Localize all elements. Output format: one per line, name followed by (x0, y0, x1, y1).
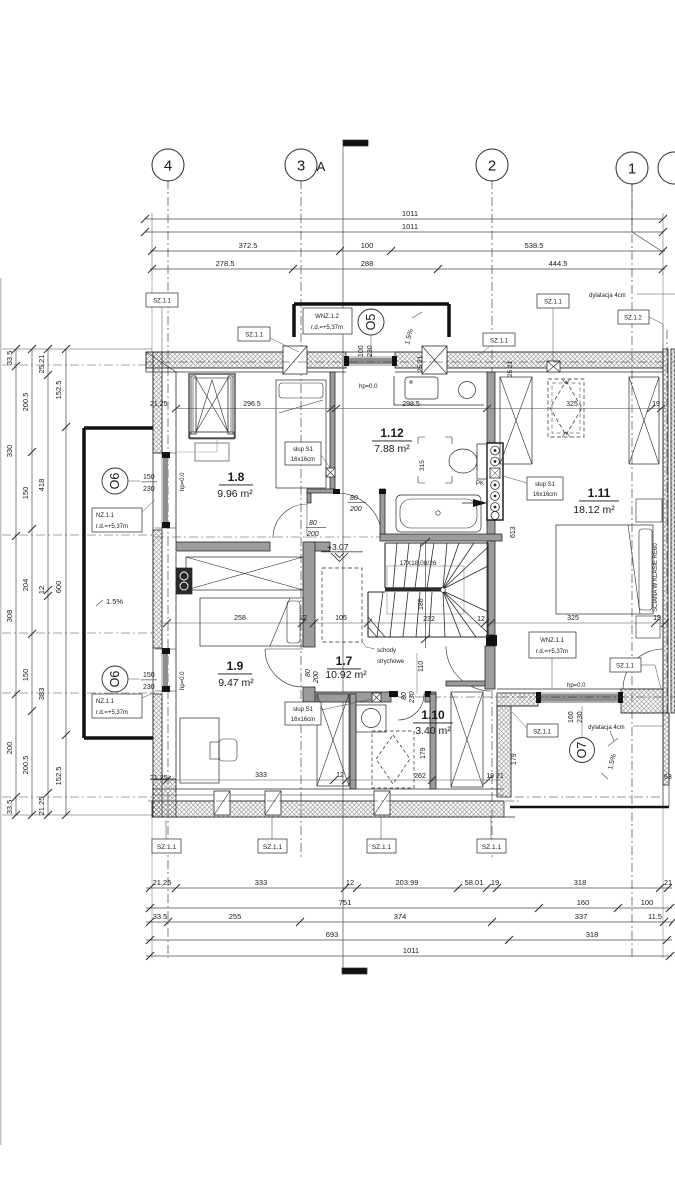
svg-text:230: 230 (577, 711, 584, 723)
boxed label SZ.1.1 upper 2 (238, 327, 299, 352)
WC east wall (430, 694, 436, 789)
svg-text:NZ.1.1: NZ.1.1 (96, 699, 115, 705)
svg-text:schody: schody (377, 648, 396, 654)
svg-text:1.7: 1.7 (336, 654, 353, 668)
ticks row1 (146, 884, 675, 960)
svg-text:200: 200 (306, 531, 319, 538)
washer square (405, 377, 438, 399)
svg-text:O7: O7 (575, 742, 589, 759)
interior dim line top y408 (172, 405, 666, 412)
svg-text:r.d.=+5,37m: r.d.=+5,37m (96, 710, 128, 716)
grid axis right partial circle (658, 152, 675, 716)
svg-text:63: 63 (664, 774, 672, 781)
svg-text:600: 600 (54, 581, 63, 594)
svg-text:337: 337 (575, 912, 588, 921)
wall 1.8/1.12 vertical (330, 372, 335, 489)
left wall window 1 (155, 452, 176, 528)
svg-text:200: 200 (5, 742, 14, 755)
svg-text:230: 230 (143, 684, 155, 691)
svg-text:33.5: 33.5 (153, 912, 168, 921)
svg-text:325: 325 (567, 615, 579, 622)
svg-text:2: 2 (488, 158, 496, 175)
svg-text:16x16cm: 16x16cm (291, 717, 315, 723)
room label 1.9 (218, 659, 254, 689)
grid axis 1 (616, 152, 648, 958)
ticks col1 (12, 345, 70, 819)
FIXTURES (356, 376, 487, 788)
svg-text:203.99: 203.99 (396, 878, 419, 887)
svg-text:SZ.1.1: SZ.1.1 (482, 844, 502, 851)
svg-text:16x16cm: 16x16cm (533, 492, 557, 498)
svg-text:3: 3 (297, 158, 305, 175)
stair opening gray rect (387, 566, 464, 614)
WC door arc (398, 694, 424, 720)
bathroom west wall (380, 489, 385, 539)
room label 1.7 (325, 654, 367, 681)
column slup S1 at WC wall (372, 693, 381, 702)
room label 1.12 (372, 426, 412, 455)
svg-text:150: 150 (143, 672, 155, 679)
svg-text:255: 255 (229, 912, 242, 921)
svg-text:1: 1 (628, 161, 636, 178)
horizontal extension dash-dot lines (2, 365, 497, 797)
center circle (441, 588, 446, 593)
svg-text:r.d.=+5,37m: r.d.=+5,37m (536, 649, 568, 655)
schody strychowe (362, 641, 405, 665)
TOPDIM (141, 183, 667, 275)
svg-text:21,25: 21,25 (150, 775, 168, 782)
svg-text:318: 318 (586, 930, 599, 939)
svg-text:330: 330 (5, 445, 14, 458)
treads upper flight parallel (393, 543, 447, 588)
boxed label SZ.1.2 (618, 310, 663, 349)
treads upper fan (443, 543, 488, 589)
svg-text:418: 418 (37, 479, 46, 492)
STAIRS (322, 538, 488, 648)
dim line row4 (146, 939, 672, 941)
svg-text:NZ.1.1: NZ.1.1 (96, 513, 115, 519)
tick marks (141, 215, 667, 273)
boxed label WNZ.1.2 + leader (303, 308, 352, 334)
boxed label NZ.1.1 second (92, 692, 155, 718)
svg-text:100: 100 (641, 898, 654, 907)
slope 1.5% top balcony (404, 312, 422, 346)
stairs east wall (487, 541, 495, 635)
wardrobe right of WC (451, 692, 483, 787)
svg-text:19: 19 (653, 615, 661, 622)
dim line row5 (146, 955, 672, 957)
svg-text:374: 374 (394, 912, 407, 921)
treads lower fan (443, 591, 488, 637)
svg-text:150: 150 (21, 487, 30, 500)
svg-text:80: 80 (309, 520, 317, 527)
wall 1.8/1.9 (176, 542, 330, 551)
wardrobe west room 1.11 (500, 377, 532, 464)
svg-text:SZ.1.2: SZ.1.2 (624, 316, 642, 322)
room label 1.11 (573, 486, 619, 516)
svg-text:383: 383 (37, 688, 46, 701)
boxed label WNZ.1.1 + leader (529, 632, 576, 689)
svg-text:179: 179 (420, 747, 427, 759)
grid labels (164, 158, 636, 178)
room label 1.8 (217, 470, 253, 500)
svg-text:4: 4 (164, 158, 172, 175)
80/200 fraction door 1.8 (306, 520, 326, 538)
boxed label slup S1 top (285, 442, 330, 468)
terrace bottom right (510, 713, 669, 807)
svg-text:258: 258 (234, 615, 246, 622)
svg-text:dylatacja 4cm: dylatacja 4cm (588, 725, 625, 731)
25/21 rotated pair top wall A (417, 355, 424, 372)
dim line 1011 upper (145, 218, 663, 220)
attic ladder hatch dashed (322, 568, 362, 642)
wall step corridor top (307, 489, 335, 493)
svg-text:1.10: 1.10 (421, 708, 445, 722)
walk line (421, 538, 430, 648)
80/230 rotated WC door (401, 691, 416, 704)
grid axis 3 (285, 149, 317, 858)
svg-text:17X18,08/26: 17X18,08/26 (400, 560, 437, 567)
PK shaft (487, 443, 503, 520)
nightstand A room 1.11 (636, 499, 662, 522)
svg-text:19: 19 (491, 878, 499, 887)
svg-text:204: 204 (21, 579, 30, 592)
svg-text:751: 751 (339, 898, 352, 907)
boxed label SZ.1.1 upper right (537, 294, 569, 361)
svg-text:SZ.1.1: SZ.1.1 (245, 333, 263, 339)
top wall hatched segments (146, 352, 663, 372)
svg-text:SZ.1.1: SZ.1.1 (490, 339, 508, 345)
svg-text:80: 80 (401, 692, 408, 700)
svg-text:SZ.1.1: SZ.1.1 (533, 730, 551, 736)
110 rotated corridor (417, 653, 425, 694)
left wall hatched segments (153, 352, 176, 817)
dashed roof window room 1.11 (548, 379, 584, 437)
dim line row1 (146, 887, 672, 889)
level +3.07 (321, 542, 363, 562)
south wing wall (under 1.11) (497, 689, 668, 713)
bottom wall (152, 789, 515, 817)
svg-text:100: 100 (361, 241, 374, 250)
svg-text:1.9: 1.9 (227, 659, 244, 673)
svg-text:SCIANA W KLASIE RE60: SCIANA W KLASIE RE60 (653, 543, 659, 612)
top balcony outline (294, 304, 449, 337)
svg-text:693: 693 (326, 930, 339, 939)
svg-text:152.5: 152.5 (54, 767, 63, 786)
svg-text:333: 333 (255, 878, 268, 887)
svg-text:318: 318 (574, 878, 587, 887)
svg-text:12: 12 (299, 615, 307, 622)
dim line row3 (146, 921, 672, 923)
dim texts (216, 209, 568, 268)
toilet (449, 444, 487, 479)
right dylatacja double wall (663, 349, 675, 713)
svg-text:315: 315 (419, 460, 426, 471)
column slup S1 in wall (top) (326, 468, 335, 477)
80/200 fraction door 1.12 (348, 495, 366, 513)
1.11 west wall below shaft (487, 520, 495, 534)
svg-text:SZ.1.1: SZ.1.1 (157, 844, 177, 851)
svg-text:150: 150 (143, 474, 155, 481)
door 1.11 arc (623, 649, 663, 689)
svg-text:160: 160 (568, 711, 575, 723)
bottom-left building corner (153, 779, 176, 817)
svg-text:1011: 1011 (402, 209, 418, 218)
lintel box top wall A (283, 346, 307, 374)
top-left wall corner mitre (146, 352, 176, 372)
svg-text:O5: O5 (364, 314, 378, 331)
svg-text:12: 12 (346, 878, 354, 887)
svg-text:33.5: 33.5 (5, 800, 14, 815)
svg-text:25 21: 25 21 (507, 360, 514, 377)
svg-text:SZ.1.1: SZ.1.1 (616, 664, 634, 670)
svg-text:308: 308 (5, 610, 14, 623)
svg-text:1011: 1011 (403, 946, 419, 955)
svg-text:WNZ.1.2: WNZ.1.2 (315, 314, 339, 320)
svg-text:152.5: 152.5 (54, 381, 63, 400)
svg-text:dylatacja 4cm: dylatacja 4cm (589, 293, 626, 299)
svg-text:strychowe: strychowe (377, 659, 405, 665)
south wing window (536, 692, 623, 703)
svg-text:160: 160 (577, 898, 590, 907)
svg-text:200.5: 200.5 (21, 756, 30, 775)
svg-text:25 21: 25 21 (417, 355, 424, 372)
balcony door window top (344, 356, 397, 366)
svg-text:200: 200 (313, 671, 320, 684)
niche wall above WC (446, 681, 494, 686)
dim line 372.5/100/538.5 (150, 250, 665, 252)
desk room 1.9 (180, 718, 237, 783)
svg-text:3.40 m²: 3.40 m² (415, 725, 451, 737)
svg-text:230: 230 (367, 345, 374, 357)
bathtub (396, 495, 481, 532)
svg-text:18.12 m²: 18.12 m² (573, 504, 615, 516)
wardrobe room 1.9 (186, 557, 303, 590)
svg-text:hp=0.0: hp=0.0 (180, 671, 186, 690)
svg-text:1011: 1011 (402, 222, 418, 231)
WC basin (356, 705, 386, 732)
wall 1.9 east (303, 542, 315, 647)
FURNITURE (176, 374, 662, 787)
svg-text:7.88 m²: 7.88 m² (374, 443, 410, 455)
bed room 1.11 (556, 525, 653, 614)
wardrobe corridor (left of WC) (317, 694, 349, 786)
leader from axis1 (632, 183, 663, 252)
vertical chain lines (15, 349, 17, 815)
bathroom/stair separating wall (380, 534, 502, 541)
svg-text:372.5: 372.5 (239, 241, 258, 250)
left balcony outline (84, 428, 153, 738)
boxed label SZ.1.1 terrace (512, 712, 558, 737)
svg-text:200.5: 200.5 (21, 393, 30, 412)
150/230 fraction first (141, 474, 157, 493)
section cut line (342, 140, 368, 974)
svg-text:słup S1: słup S1 (293, 707, 314, 713)
east wall above south wing (485, 646, 495, 689)
svg-text:SZ.1.1: SZ.1.1 (544, 300, 562, 306)
roof window room 1.8 (176, 374, 235, 461)
svg-text:444.5: 444.5 (549, 259, 568, 268)
top/bottom connector (2, 348, 152, 350)
svg-text:186: 186 (418, 598, 425, 610)
boxed label SZ.1.1 right mid (610, 658, 661, 689)
circled O6 first (102, 468, 140, 494)
svg-text:21: 21 (664, 878, 672, 887)
slope 1.5% left balcony (96, 597, 123, 606)
svg-text:11.5: 11.5 (648, 912, 662, 921)
160/230 rotated fraction terrace (568, 711, 584, 723)
svg-text:21,25: 21,25 (153, 878, 172, 887)
rotated dim texts (5, 351, 63, 816)
svg-text:12: 12 (37, 586, 46, 594)
80/200 rotated door 1.9 (305, 669, 320, 684)
svg-text:179: 179 (511, 753, 518, 765)
svg-text:hp=0.0: hp=0.0 (180, 472, 186, 491)
svg-text:12: 12 (336, 772, 344, 779)
circled O7 (570, 706, 595, 763)
svg-text:9.96 m²: 9.96 m² (217, 488, 253, 500)
svg-text:hp=0.0: hp=0.0 (567, 683, 586, 689)
svg-text:613: 613 (510, 526, 517, 538)
svg-text:230: 230 (409, 691, 416, 704)
wall stub below 1.9 door (303, 687, 315, 702)
1.11 west wall upper (487, 372, 495, 443)
bottom wall axis dash-dot (148, 800, 520, 802)
slope 1.5% terrace (601, 731, 618, 779)
door 1.8 arc (273, 504, 307, 538)
svg-text:r.d.=+5,37m: r.d.=+5,37m (311, 325, 343, 331)
room label 1.10 (413, 708, 453, 737)
bed room 1.8 (276, 380, 326, 488)
grid axis 4 (152, 149, 184, 958)
svg-text:25.21: 25.21 (37, 355, 46, 374)
top wall axis dash-dot (145, 361, 675, 363)
svg-text:O6: O6 (108, 671, 122, 688)
svg-text:262: 262 (414, 773, 426, 780)
round basin (459, 382, 476, 399)
svg-text:16x16cm: 16x16cm (291, 457, 315, 463)
svg-text:słup S1: słup S1 (293, 447, 314, 453)
svg-text:+3.07: +3.07 (327, 542, 349, 552)
svg-text:33.5: 33.5 (5, 351, 14, 366)
svg-text:105: 105 (335, 615, 347, 622)
svg-text:hp=0.0: hp=0.0 (359, 384, 378, 390)
boxed label slup S1 mid (503, 476, 563, 500)
svg-text:A: A (317, 159, 326, 174)
grid axis 2 (476, 149, 508, 858)
treads lower flight parallel (377, 592, 432, 637)
extension line left edge (151, 275, 153, 352)
south wing axis dash-dot (330, 696, 675, 698)
column in top wall (547, 361, 560, 372)
WC top wall (315, 691, 436, 702)
svg-text:O6: O6 (108, 473, 122, 490)
svg-text:21,25: 21,25 (150, 401, 168, 408)
page edge shadow (0, 278, 2, 1145)
LEFTDIM (2, 345, 497, 819)
svg-text:58.01: 58.01 (465, 878, 484, 887)
svg-text:1.8: 1.8 (228, 470, 245, 484)
svg-text:SZ.1.1: SZ.1.1 (372, 844, 392, 851)
svg-text:r.d.=+5,37m: r.d.=+5,37m (96, 524, 128, 530)
extension line right edge (662, 272, 664, 349)
svg-text:230: 230 (143, 486, 155, 493)
svg-text:1.12: 1.12 (380, 426, 404, 440)
svg-text:19: 19 (652, 401, 660, 408)
dim line 1011 lower (145, 231, 663, 233)
bottom SZ.1.1 label boxes (152, 817, 506, 853)
25/21 rotated pair top wall B (507, 360, 514, 377)
svg-text:298.5: 298.5 (402, 401, 420, 408)
INTERIOR (176, 372, 663, 789)
svg-text:538.5: 538.5 (525, 241, 544, 250)
WC shower dashed (372, 731, 414, 788)
interior dim line mid y623 (160, 619, 669, 627)
svg-text:296.5: 296.5 (243, 401, 261, 408)
svg-text:150: 150 (21, 669, 30, 682)
svg-text:1.11: 1.11 (588, 486, 611, 500)
svg-text:80: 80 (305, 669, 312, 677)
svg-text:21.25: 21.25 (37, 797, 46, 816)
nightstand B room 1.11 (636, 616, 660, 638)
lower-right corner wall of main part (497, 706, 511, 797)
dim line bottom rooms (160, 776, 500, 784)
circled O6 second (102, 666, 140, 692)
left wall window 2 (155, 648, 176, 692)
boxed label NZ.1.1 first (92, 500, 155, 532)
svg-text:1.5%: 1.5% (106, 597, 123, 606)
svg-text:110: 110 (418, 661, 425, 672)
BOTTOMDIM (146, 817, 675, 960)
bottom wall lintel boxes (214, 791, 230, 815)
svg-text:SZ.1.1: SZ.1.1 (153, 299, 171, 305)
svg-text:słup S1: słup S1 (535, 482, 556, 488)
lintel box top wall B (422, 346, 447, 374)
svg-text:80: 80 (350, 495, 358, 502)
svg-text:232: 232 (423, 616, 435, 623)
bath counter (394, 376, 484, 405)
bed room 1.9 (200, 598, 303, 646)
stair boundary (368, 543, 488, 637)
door 1.12 arc (337, 493, 382, 538)
dim texts (153, 878, 673, 955)
315 bracket dim (418, 437, 452, 483)
dim line row2 (146, 907, 672, 909)
corridor east door arc (446, 646, 491, 691)
svg-text:278.5: 278.5 (216, 259, 235, 268)
boxed label SZ.1.1 upper 3 (478, 333, 515, 356)
dim line 278.5/288/444.5 (150, 268, 665, 270)
door 1.9 arc (265, 649, 303, 687)
extension verticals (151, 213, 153, 275)
svg-text:333: 333 (255, 772, 267, 779)
100/230 rotated fraction top (358, 345, 374, 357)
svg-text:SZ.1.1: SZ.1.1 (263, 844, 283, 851)
svg-text:200: 200 (349, 506, 362, 513)
arrow into shaft (462, 499, 487, 507)
dresser dark room 1.9 (176, 568, 192, 594)
WALLS (84, 304, 675, 817)
svg-text:10.92 m²: 10.92 m² (325, 669, 367, 681)
svg-text:325: 325 (566, 401, 578, 408)
landing edge thick (385, 587, 443, 591)
boxed label SZ.1.1 top-left (146, 293, 178, 352)
circled O5 (358, 309, 384, 358)
150/230 fraction second (141, 672, 157, 691)
svg-text:WNZ.1.1: WNZ.1.1 (540, 638, 564, 644)
svg-text:9.47 m²: 9.47 m² (218, 677, 254, 689)
svg-text:288: 288 (361, 259, 374, 268)
